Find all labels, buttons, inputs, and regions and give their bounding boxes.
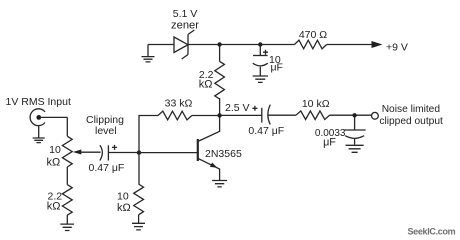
svg-text:kΩ: kΩ <box>46 156 60 168</box>
svg-text:kΩ: kΩ <box>199 79 213 91</box>
svg-text:kΩ: kΩ <box>47 201 61 213</box>
svg-text:10: 10 <box>49 144 61 156</box>
svg-text:0.47 μF: 0.47 μF <box>248 125 284 137</box>
svg-text:+9 V: +9 V <box>386 42 408 54</box>
svg-text:2.5 V: 2.5 V <box>225 102 250 114</box>
svg-text:clipped output: clipped output <box>379 116 443 127</box>
svg-text:μF: μF <box>323 137 336 149</box>
svg-text:1V RMS Input: 1V RMS Input <box>6 96 71 108</box>
svg-text:10 kΩ: 10 kΩ <box>302 98 330 110</box>
svg-text:0.47 μF: 0.47 μF <box>89 162 125 174</box>
svg-text:Clipping: Clipping <box>86 114 124 126</box>
svg-text:zener: zener <box>171 19 199 31</box>
svg-text:10: 10 <box>117 190 129 202</box>
svg-text:kΩ: kΩ <box>117 202 131 214</box>
svg-text:5.1 V: 5.1 V <box>173 8 198 20</box>
svg-text:Noise limited: Noise limited <box>382 104 441 115</box>
svg-text:470 Ω: 470 Ω <box>299 29 327 41</box>
svg-text:33 kΩ: 33 kΩ <box>165 97 193 109</box>
svg-text:SeekIC.com: SeekIC.com <box>408 227 456 237</box>
svg-text:level: level <box>95 125 117 137</box>
svg-text:μF: μF <box>271 62 283 74</box>
svg-text:2N3565: 2N3565 <box>205 148 242 160</box>
